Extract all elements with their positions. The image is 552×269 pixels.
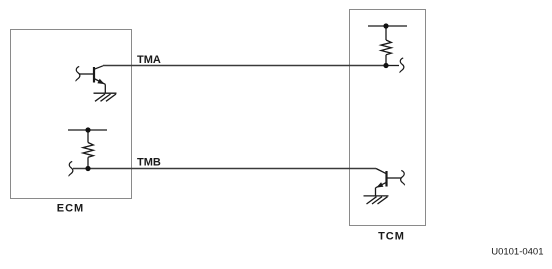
svg-text:TCM: TCM <box>378 230 405 242</box>
svg-text:U0101-0401: U0101-0401 <box>491 246 543 257</box>
svg-text:TMA: TMA <box>137 54 161 66</box>
svg-text:TMB: TMB <box>137 156 161 168</box>
svg-text:ECM: ECM <box>57 203 84 215</box>
